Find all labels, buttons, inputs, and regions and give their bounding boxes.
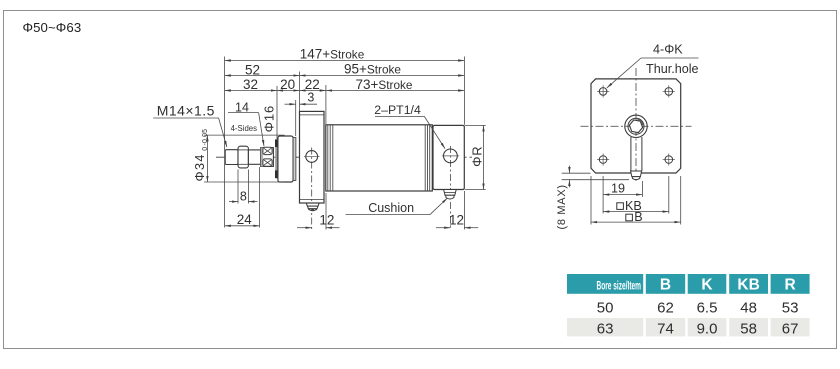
rod nut M14 (238, 146, 248, 168)
table header row (567, 274, 810, 294)
svg-text:M14×1.5: M14×1.5 (157, 102, 215, 118)
rear cap (433, 125, 464, 189)
dim 95+Stroke (300, 75, 465, 77)
svg-text:32: 32 (243, 77, 258, 92)
front cap body (278, 136, 293, 182)
svg-text:Φ16: Φ16 (261, 105, 276, 133)
bolt hole BL (597, 153, 609, 165)
bolt hole TR (663, 85, 675, 97)
center boss inner circle (628, 118, 644, 134)
rod section (248, 150, 260, 164)
rear port circle (442, 149, 459, 163)
table row 2 background (567, 318, 810, 336)
dim B (591, 176, 681, 225)
extension line cap lip (276, 86, 278, 140)
leader 2-PT1/4 (375, 116, 445, 148)
svg-text:74: 74 (657, 321, 674, 338)
svg-text:(8 MAX): (8 MAX) (556, 184, 568, 229)
port tab below boss (631, 137, 642, 171)
svg-text:12: 12 (319, 213, 334, 228)
svg-text:Bore size/Item: Bore size/Item (597, 280, 642, 292)
svg-text:KB: KB (737, 277, 759, 294)
table row 1 (597, 299, 799, 316)
svg-text:ΦR: ΦR (469, 146, 484, 167)
bolt hole BR (663, 153, 675, 165)
svg-text:6.5: 6.5 (697, 299, 718, 316)
cylinder tube (326, 125, 433, 191)
svg-text:48: 48 (740, 299, 757, 316)
svg-text:8: 8 (240, 190, 247, 204)
front port circle (304, 151, 320, 163)
svg-text:50: 50 (597, 299, 614, 316)
svg-text:12: 12 (449, 213, 464, 228)
dim 52 (225, 75, 300, 77)
dim 20 (277, 90, 300, 92)
svg-text:52: 52 (245, 62, 260, 77)
boss shading arc (638, 119, 644, 125)
centerline main axis (216, 156, 475, 158)
svg-text:B: B (660, 277, 671, 294)
flange square (591, 79, 681, 173)
extension line cap rear face (295, 100, 297, 136)
extension line right end (463, 57, 465, 125)
leader Cushion (346, 198, 448, 215)
svg-text:53: 53 (782, 299, 799, 316)
dim 22 (300, 90, 326, 92)
rear port axis (449, 146, 451, 230)
dim 3 (285, 103, 318, 105)
svg-text:R: R (784, 277, 795, 294)
front flange block (300, 111, 325, 203)
rod collar with wrench flats (261, 147, 274, 166)
svg-text:58: 58 (740, 321, 757, 338)
dim 19 (603, 176, 642, 214)
dim 12 rear (436, 191, 478, 230)
svg-text:63: 63 (597, 321, 614, 338)
svg-text:73+Stroke: 73+Stroke (355, 77, 412, 92)
front cap ring (293, 138, 296, 181)
front cushion nipple (306, 203, 319, 211)
svg-text:147+Stroke: 147+Stroke (300, 47, 365, 62)
dim 147+Stroke (225, 60, 465, 62)
svg-text:67: 67 (782, 321, 799, 338)
svg-text:14: 14 (235, 100, 249, 114)
rod threaded tip (225, 150, 238, 165)
leader 14 (228, 113, 264, 147)
front port axis (311, 148, 313, 230)
tube ribs left (328, 125, 333, 191)
svg-text:3: 3 (307, 90, 314, 104)
leader 4-phiK (607, 58, 699, 88)
svg-text:95+Stroke: 95+Stroke (344, 62, 401, 77)
dim 12 front (297, 193, 340, 230)
dim phiR (465, 125, 486, 189)
svg-text:Cushion: Cushion (368, 201, 414, 215)
svg-text:2–PT1/4: 2–PT1/4 (374, 103, 421, 117)
svg-text:20: 20 (280, 77, 295, 92)
vertical centerline (635, 68, 637, 181)
leader M14x1.5 (153, 118, 227, 147)
rear cushion nipple (444, 190, 457, 199)
tube ribs right (425, 125, 430, 191)
label B with square (626, 210, 643, 224)
rod hexagon (629, 120, 642, 133)
extension line flange left (299, 72, 301, 112)
svg-text:K: K (701, 277, 713, 294)
dim 8MAX (562, 166, 629, 188)
svg-text:4-ΦK: 4-ΦK (653, 43, 683, 57)
center boss outer circle (625, 115, 647, 137)
svg-text:Φ50~Φ63: Φ50~Φ63 (23, 20, 82, 35)
svg-text:62: 62 (657, 299, 674, 316)
horizontal centerline (581, 125, 692, 127)
table header text (597, 277, 796, 294)
front view cushion nipple (631, 171, 642, 180)
svg-text:B: B (634, 210, 642, 224)
dim 32 (225, 90, 277, 92)
label KB with square (617, 199, 642, 213)
extension line left (rod tip) (224, 57, 226, 228)
svg-text:19: 19 (611, 181, 625, 195)
svg-text:9.0: 9.0 (697, 321, 718, 338)
dim KB (603, 176, 669, 214)
dim 24 (225, 167, 260, 228)
svg-text:Thur.hole: Thur.hole (646, 62, 699, 76)
svg-text:24: 24 (237, 212, 253, 227)
dim 8 (229, 170, 257, 204)
bolt hole TL (597, 85, 609, 97)
dim phi34 (204, 135, 285, 182)
svg-text:4-Sides: 4-Sides (231, 124, 258, 133)
dim 73+Stroke (326, 90, 465, 92)
front cap lip (275, 139, 278, 178)
extension line tube left (325, 85, 327, 124)
table row 2 text (597, 321, 799, 338)
